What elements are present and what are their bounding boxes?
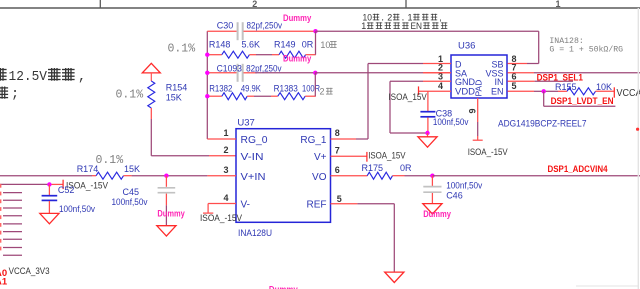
U36 pin7 VSS wire off-page <box>508 72 534 74</box>
wire -15V rail <box>0 183 49 185</box>
analog switch U36 body <box>451 55 507 98</box>
resistor R1383 <box>278 93 305 100</box>
U37 pin1 stub <box>207 138 236 140</box>
resistor R149 <box>279 51 306 58</box>
ground (REF) <box>385 272 404 282</box>
annotation INA128 gain note <box>549 37 623 55</box>
U37 pin8 wire to U36 D <box>331 138 357 140</box>
svg-text:ISOA_15V: ISOA_15V <box>388 92 426 102</box>
gain note 10x <box>320 40 336 50</box>
wire R175 to C46 node <box>393 175 405 177</box>
annotation chinese note line1 (10x 2x 1x best) <box>363 12 442 23</box>
wire input row left <box>0 175 92 177</box>
svg-text:EN: EN <box>411 21 423 31</box>
annotation chinese line2 <box>0 87 19 103</box>
wire row3 left <box>207 72 236 74</box>
wire row2 left stub <box>207 54 222 56</box>
svg-text:4: 4 <box>438 81 443 91</box>
U36 pin5 EN wire <box>508 90 534 92</box>
svg-text:12.5V: 12.5V <box>9 70 48 85</box>
svg-text:VO: VO <box>312 172 327 183</box>
svg-text:R1382: R1382 <box>209 83 232 93</box>
U37 pin5 wire to ground <box>331 203 358 205</box>
node junction C52 <box>47 182 51 186</box>
svg-text:1: 1 <box>555 0 560 9</box>
node junction EN <box>542 89 546 93</box>
svg-text:R148: R148 <box>209 40 231 50</box>
svg-text:Dummy: Dummy <box>157 209 185 220</box>
capacitor C30 (dummy) <box>237 22 239 40</box>
resistor R154 <box>148 81 155 108</box>
svg-text:10K: 10K <box>596 82 612 92</box>
svg-text:9: 9 <box>468 108 478 113</box>
node junction row1 right <box>313 29 317 33</box>
svg-text:R149: R149 <box>274 40 296 50</box>
svg-text:A1: A1 <box>0 277 8 288</box>
U36 pin4 VDD wire and ISOA_15V flag <box>419 90 452 92</box>
wire top rail to SB corner <box>316 30 539 32</box>
U36 pin6 IN wire <box>508 80 535 82</box>
svg-text:R175: R175 <box>362 163 384 173</box>
annotation chinese line1 (12.5V...) <box>0 68 86 85</box>
wire row4 right stub <box>305 95 316 97</box>
svg-text:100nf,50v: 100nf,50v <box>59 204 95 214</box>
sheet border tick left <box>99 0 101 8</box>
svg-text:5.6K: 5.6K <box>242 40 261 50</box>
svg-text:10: 10 <box>320 40 330 50</box>
U37 pin7 stub and ISOA_15V flag <box>331 155 367 157</box>
svg-text:82pf,250v: 82pf,250v <box>246 63 282 73</box>
ISOA_-15V power flag (C52) <box>62 180 64 189</box>
svg-text:C52: C52 <box>58 185 75 195</box>
red mark right edge <box>636 128 639 131</box>
svg-text:,: , <box>78 70 86 85</box>
svg-text:,: , <box>402 12 404 22</box>
resistor R174 <box>96 172 123 179</box>
svg-text:6: 6 <box>335 165 340 175</box>
svg-text:2: 2 <box>320 87 325 97</box>
svg-text:100nf,50v: 100nf,50v <box>446 181 482 191</box>
svg-text:VCCA: VCCA <box>617 88 640 99</box>
svg-text:100nf,50v: 100nf,50v <box>112 197 148 207</box>
svg-text:U36: U36 <box>458 41 475 52</box>
svg-text:7: 7 <box>335 146 340 156</box>
capacitor C45 (dummy) <box>165 176 167 187</box>
wire DSP1_ADCVIN4 <box>432 175 640 177</box>
node junction C45 <box>164 174 168 178</box>
svg-text:V+: V+ <box>314 152 327 163</box>
svg-text:RG_0: RG_0 <box>241 135 268 146</box>
VCCA power flag <box>613 87 615 97</box>
sheet border top line <box>0 7 640 9</box>
ground (C52) <box>40 213 59 223</box>
svg-text:Dummy: Dummy <box>423 209 451 220</box>
svg-text:2: 2 <box>223 145 228 155</box>
wire row1 C30 right <box>244 30 316 32</box>
ground (C46) <box>423 204 442 214</box>
wires to off-sheet connector (left) <box>3 192 22 194</box>
svg-text:ISOA_-15V: ISOA_-15V <box>468 147 508 157</box>
node junction row3 right <box>313 71 317 75</box>
svg-text:VCCA_3V3: VCCA_3V3 <box>9 266 50 277</box>
capacitor C46 (dummy) <box>431 176 433 186</box>
svg-text:1: 1 <box>361 21 366 31</box>
svg-text:V+IN: V+IN <box>241 172 266 183</box>
svg-text:R155: R155 <box>555 82 577 92</box>
U36 pin1 wire to RG_1 net <box>368 63 423 65</box>
svg-text:2: 2 <box>252 0 257 9</box>
svg-text:ADG1419BCPZ-REEL7: ADG1419BCPZ-REEL7 <box>498 118 587 129</box>
faint sheet edge right <box>637 8 639 289</box>
op-amp U37 body <box>236 129 331 223</box>
node junction row2 left <box>205 53 209 57</box>
svg-text:0R: 0R <box>302 40 314 50</box>
svg-text:Dummy: Dummy <box>269 285 298 289</box>
resistor R148 <box>222 51 250 58</box>
U36 pin1 D stub <box>423 63 451 65</box>
node junction row3 left <box>205 71 209 75</box>
resistor R1382 <box>222 93 247 100</box>
wire row2 middle <box>249 54 256 56</box>
wire to ground (C38) <box>427 133 429 137</box>
svg-text:INA128U: INA128U <box>238 228 272 239</box>
wire right rail segment A <box>315 31 317 55</box>
node junction C38/GND <box>425 131 429 135</box>
svg-text:ISOA_-15V: ISOA_-15V <box>200 213 242 223</box>
U36 pin9 PAD wire <box>477 98 479 122</box>
node junction row4 left <box>205 94 209 98</box>
wire row1 C30 left <box>207 30 236 32</box>
svg-text:R1383: R1383 <box>274 83 298 93</box>
svg-text:REF: REF <box>307 200 327 211</box>
svg-text:2: 2 <box>387 12 392 22</box>
svg-text:Dummy: Dummy <box>283 54 311 64</box>
svg-text:8: 8 <box>335 128 340 138</box>
connector pin number fragments (left edge) <box>0 184 1 188</box>
svg-text:PAD: PAD <box>473 80 483 97</box>
svg-text:5: 5 <box>337 194 342 204</box>
resistor R175 <box>367 172 392 179</box>
svg-text:82pf,250v: 82pf,250v <box>247 21 283 31</box>
wire row4 middle <box>247 95 254 97</box>
svg-text:0R: 0R <box>400 163 412 173</box>
svg-text:1: 1 <box>223 128 228 138</box>
capacitor C38 <box>420 111 435 113</box>
svg-text:;: ; <box>11 88 19 103</box>
wire row4 left stub <box>207 95 222 97</box>
capacitor C1093 (dummy) <box>237 64 239 82</box>
svg-text:15K: 15K <box>166 93 182 103</box>
wire R155 to VCCA <box>596 90 615 92</box>
wire row3 to U36 SA <box>315 72 423 74</box>
svg-text:3: 3 <box>223 165 228 175</box>
svg-text:0.1%: 0.1% <box>116 88 144 101</box>
svg-text:EN: EN <box>491 87 504 97</box>
svg-text:V-: V- <box>241 200 250 211</box>
svg-text:,: , <box>439 12 442 22</box>
faint border fragment bottom right <box>576 285 639 287</box>
U36 pin8 SB stub <box>508 63 527 65</box>
wire DSP1_LVDT_EN stub <box>543 91 545 106</box>
svg-text:0.1%: 0.1% <box>168 43 196 56</box>
svg-text:U37: U37 <box>237 118 254 129</box>
svg-text:DSP1_LVDT_EN: DSP1_LVDT_EN <box>551 96 614 107</box>
U37 pin4 wire and ISOA_-15V flag <box>208 203 236 205</box>
node junction C46 <box>430 174 434 178</box>
wire R174 to U37 pin3 <box>124 175 132 177</box>
capacitor C52 <box>48 184 50 195</box>
annotation chinese note line2 (1x via EN...) <box>361 21 447 31</box>
U36 pin2 SA stub <box>423 72 451 74</box>
resistor R155 <box>567 88 596 95</box>
svg-text:,: , <box>382 12 384 22</box>
svg-text:4: 4 <box>223 193 228 203</box>
svg-text:0.1%: 0.1% <box>96 154 124 167</box>
wire right rail segment B <box>314 73 316 96</box>
wire left vertical rail (RG_0 net) <box>206 31 208 139</box>
ground (C38) <box>418 137 437 147</box>
svg-text:R154: R154 <box>166 83 188 93</box>
U36 pin3 GND wire <box>423 80 451 82</box>
sheet border tick right <box>405 0 407 8</box>
ground (C45) <box>157 226 176 236</box>
svg-text:C46: C46 <box>446 190 463 200</box>
svg-text:ISOA_15V: ISOA_15V <box>368 151 405 161</box>
svg-text:C45: C45 <box>123 187 140 197</box>
svg-text:Dummy: Dummy <box>283 13 311 23</box>
svg-text:V-IN: V-IN <box>241 152 264 163</box>
svg-text:100nf,50v: 100nf,50v <box>433 117 469 127</box>
power symbol arrow (R154 top) <box>142 63 160 73</box>
wire row2 right stub <box>306 54 316 56</box>
U37 pin6 stub <box>331 175 368 177</box>
svg-text:15K: 15K <box>124 164 140 174</box>
svg-text:49.9K: 49.9K <box>241 83 261 93</box>
gain note 2x <box>320 87 333 97</box>
wire row3 middle <box>244 72 258 74</box>
svg-text:G = 1 + 50kΩ/RG: G = 1 + 50kΩ/RG <box>549 45 623 55</box>
svg-text:5: 5 <box>512 81 517 91</box>
wire R154 bottom to U37 pin2 <box>150 108 152 119</box>
svg-text:RG_1: RG_1 <box>300 135 327 146</box>
svg-text:100R: 100R <box>302 83 320 93</box>
svg-text:C1093: C1093 <box>217 63 242 73</box>
svg-text:C30: C30 <box>217 21 234 31</box>
svg-text:DSP1_ADCVIN4: DSP1_ADCVIN4 <box>548 164 609 175</box>
